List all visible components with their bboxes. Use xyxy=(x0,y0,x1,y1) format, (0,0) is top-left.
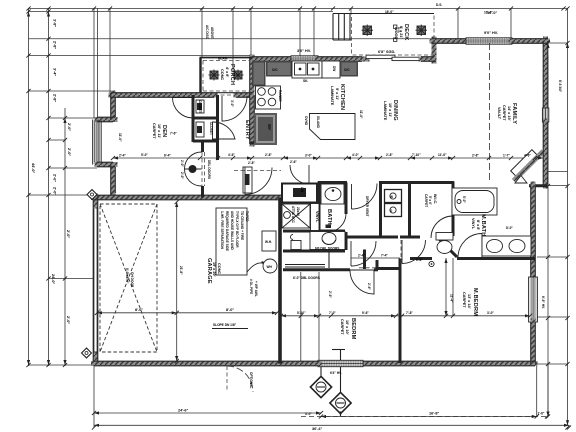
north counter bands xyxy=(266,61,292,77)
family north window xyxy=(466,38,512,44)
family north wall east seg xyxy=(511,39,548,44)
garage X xyxy=(100,204,157,352)
svg-text:ISLAND: ISLAND xyxy=(316,116,320,129)
porch posts xyxy=(209,70,220,81)
south wall east seg xyxy=(363,361,535,366)
svg-text:TO CEILING + FIRE: TO CEILING + FIRE xyxy=(240,211,244,240)
svg-text:2'-8": 2'-8" xyxy=(248,161,255,165)
svg-text:16'-0": 16'-0" xyxy=(385,10,394,14)
gas line to meters xyxy=(340,350,342,417)
bedroom2 door arc xyxy=(350,270,374,294)
closet rods xyxy=(196,100,204,113)
svg-text:2'-8": 2'-8" xyxy=(265,153,272,157)
den bay top xyxy=(97,117,115,122)
svg-text:2'-0": 2'-0" xyxy=(67,123,71,131)
top dim line xyxy=(29,8,569,10)
svg-text:9'-0"x8'-0": 9'-0"x8'-0" xyxy=(125,268,129,284)
garage south wall xyxy=(94,361,284,366)
sliding glass door xyxy=(366,55,421,60)
left margin vertical dim lines xyxy=(28,9,30,367)
svg-text:DBL DOORS: DBL DOORS xyxy=(207,160,211,179)
sink xyxy=(292,61,322,78)
svg-text:TAPED: TAPED xyxy=(245,211,249,222)
bedroom2 closet dbl doors xyxy=(285,264,325,266)
family north wall west seg xyxy=(432,39,467,44)
svg-text:24'-0": 24'-0" xyxy=(51,274,55,285)
right margin vertical dim lines xyxy=(547,55,549,417)
svg-text:21'-8": 21'-8" xyxy=(179,266,183,275)
svg-text:6'-0" DBL DOORS: 6'-0" DBL DOORS xyxy=(293,276,320,280)
svg-text:LIN: LIN xyxy=(300,187,304,193)
svg-text:VAULT: VAULT xyxy=(497,107,501,120)
svg-text:14' x 19': 14' x 19' xyxy=(507,106,511,121)
nook-family jog wall xyxy=(432,39,437,61)
svg-text:2'-6": 2'-6" xyxy=(367,283,371,290)
svg-text:2'-6": 2'-6" xyxy=(53,174,57,182)
svg-text:4'-0": 4'-0" xyxy=(352,153,359,157)
east counter band xyxy=(340,61,358,77)
fireplace diagonal wall xyxy=(529,184,547,187)
svg-text:2'-8": 2'-8" xyxy=(386,153,393,157)
WH circle xyxy=(263,259,277,273)
svg-text:19' x 20': 19' x 20' xyxy=(212,262,216,277)
meter diamond 1 xyxy=(310,376,331,397)
svg-text:13' x 14': 13' x 14' xyxy=(467,294,471,309)
bath toilet xyxy=(310,232,345,250)
svg-text:A/C DISC: A/C DISC xyxy=(205,25,209,40)
den north wall xyxy=(111,93,193,98)
bedroom2 west ext line xyxy=(318,272,320,360)
svg-text:8'-0": 8'-0" xyxy=(506,226,513,230)
fireplace box xyxy=(511,150,539,178)
washer dryer xyxy=(385,190,402,203)
svg-text:7'-8": 7'-8" xyxy=(406,311,413,315)
svg-text:REQUIRED GARAGE SIDE: REQUIRED GARAGE SIDE xyxy=(225,211,229,251)
svg-text:6/0 DBL DOORS: 6/0 DBL DOORS xyxy=(315,247,339,251)
svg-text:AND HOUSE WALLS AND: AND HOUSE WALLS AND xyxy=(230,211,234,251)
interior dim: garage xyxy=(97,312,277,314)
svg-text:1'-7": 1'-7" xyxy=(503,153,510,157)
svg-text:3'-4": 3'-4" xyxy=(53,68,57,76)
kitchen wall end cap xyxy=(250,142,254,145)
kitchen north wall west seg xyxy=(252,57,292,62)
svg-text:16'-8": 16'-8" xyxy=(429,412,440,416)
slope underline xyxy=(212,328,248,330)
mbed east wall lower xyxy=(531,321,536,364)
svg-text:3'0" HV.: 3'0" HV. xyxy=(297,49,311,53)
svg-text:16'-4": 16'-4" xyxy=(484,11,493,15)
attic access box xyxy=(282,204,310,228)
utility walls xyxy=(379,182,382,237)
mbath tub xyxy=(452,188,497,215)
den bay window xyxy=(95,121,101,163)
svg-text:3'-0": 3'-0" xyxy=(487,311,494,315)
svg-text:CONC: CONC xyxy=(220,69,224,80)
bottom dim lines xyxy=(94,412,321,414)
deck outline dashed xyxy=(352,14,435,56)
mbath vanity xyxy=(482,236,531,256)
svg-text:# GL.PIPE: # GL.PIPE xyxy=(249,279,253,294)
svg-text:7'-0": 7'-0" xyxy=(329,311,336,315)
svg-text:8'-6" HV.: 8'-6" HV. xyxy=(541,296,545,309)
svg-text:SLOPE DN 1/8": SLOPE DN 1/8" xyxy=(213,323,237,327)
kitchen window xyxy=(291,56,318,62)
left horizontal dim lines xyxy=(29,11,334,13)
svg-text:DW: DW xyxy=(332,66,336,71)
mbath toilet xyxy=(436,233,453,241)
mbath door arc xyxy=(458,234,482,258)
svg-text:D.S.: D.S. xyxy=(397,27,401,33)
svg-text:CARPET: CARPET xyxy=(340,319,344,335)
den double doors dashed xyxy=(201,152,203,186)
hall coat closet xyxy=(243,167,252,193)
svg-text:SK.: SK. xyxy=(303,79,308,83)
dw box xyxy=(322,61,340,78)
svg-text:2'-0": 2'-0" xyxy=(180,172,184,179)
hose bib den xyxy=(87,190,97,200)
svg-text:3'-0": 3'-0" xyxy=(230,100,234,107)
svg-text:LAMINATE: LAMINATE xyxy=(330,86,334,106)
svg-text:1'-6": 1'-6" xyxy=(538,412,545,416)
svg-text:4' x 8': 4' x 8' xyxy=(225,67,229,77)
svg-text:+ WP AWL: + WP AWL xyxy=(254,281,258,297)
svg-text:CARPET: CARPET xyxy=(424,194,428,207)
svg-text:10' x 10': 10' x 10' xyxy=(345,320,349,335)
bedroom2 south window xyxy=(318,360,363,366)
svg-text:10' x 11': 10' x 11' xyxy=(157,124,161,138)
den bay bottom xyxy=(97,162,115,167)
garage north wall / den south wall xyxy=(94,195,284,200)
island xyxy=(310,114,356,140)
svg-text:9'0" HV.: 9'0" HV. xyxy=(484,31,498,35)
bottom-left extension xyxy=(93,366,95,428)
svg-text:11'-6": 11'-6" xyxy=(359,110,363,119)
wic walls xyxy=(412,181,454,184)
svg-text:6'8" SGD.: 6'8" SGD. xyxy=(378,50,395,54)
svg-text:LAMINATE: LAMINATE xyxy=(383,101,387,121)
svg-text:8'-0": 8'-0" xyxy=(226,308,234,312)
svg-text:TYPE-X GYP BD FLOOR: TYPE-X GYP BD FLOOR xyxy=(235,211,239,248)
svg-text:2'-4": 2'-4" xyxy=(119,153,126,157)
svg-text:2'-6": 2'-6" xyxy=(290,160,297,164)
hall door arc lin xyxy=(308,165,310,184)
svg-text:O/C: O/C xyxy=(272,68,278,72)
svg-text:CONC: CONC xyxy=(217,263,221,274)
svg-text:7'-6": 7'-6" xyxy=(170,132,177,136)
svg-text:3'-0": 3'-0" xyxy=(305,153,312,157)
svg-text:7'-4": 7'-4" xyxy=(381,254,388,258)
svg-text:CLOSET: CLOSET xyxy=(198,100,202,113)
svg-text:6'-8": 6'-8" xyxy=(416,258,423,262)
closet north wall xyxy=(192,93,215,98)
mbath-mbed east window xyxy=(529,277,538,322)
hose bib garage sw xyxy=(82,348,92,358)
svg-text:7'-10": 7'-10" xyxy=(412,153,421,157)
svg-text:W.I.C.: W.I.C. xyxy=(433,194,437,204)
vertical extension lines from top xyxy=(93,9,95,119)
note box xyxy=(216,208,247,275)
svg-text:ATTIC ACC: ATTIC ACC xyxy=(291,206,295,224)
optional door arc xyxy=(227,366,253,392)
hall dashes xyxy=(359,267,400,269)
mbed door arc xyxy=(401,240,403,264)
hall door arc west xyxy=(244,168,246,195)
svg-text:VINYL: VINYL xyxy=(315,211,319,223)
svg-text:11'-0": 11'-0" xyxy=(118,133,122,142)
WH box xyxy=(262,231,276,251)
family east wall lower xyxy=(543,121,548,186)
svg-text:GARAGE: GARAGE xyxy=(206,258,212,284)
svg-text:3'-8": 3'-8" xyxy=(53,19,57,27)
bath side box xyxy=(291,241,301,250)
svg-text:OH DOOR: OH DOOR xyxy=(130,272,134,288)
svg-text:2'-0": 2'-0" xyxy=(66,316,70,324)
svg-text:5'-0": 5'-0" xyxy=(462,196,466,203)
svg-text:36'-4": 36'-4" xyxy=(312,427,323,431)
svg-text:4'-6": 4'-6" xyxy=(228,153,235,157)
corridor dashes xyxy=(234,170,281,172)
deck posts xyxy=(362,25,374,37)
svg-text:WH: WH xyxy=(267,265,273,269)
svg-text:8'-0": 8'-0" xyxy=(135,308,143,312)
entry door header dashed xyxy=(214,94,237,96)
svg-text:6'4" HV.: 6'4" HV. xyxy=(330,371,342,375)
kitchen north wall east seg xyxy=(317,57,367,62)
right horizontal dim stubs xyxy=(548,42,568,44)
svg-text:O/C: O/C xyxy=(344,68,350,72)
closet box walls xyxy=(192,95,195,142)
interior dim: bedrooms xyxy=(281,315,530,317)
svg-text:11'-6": 11'-6" xyxy=(438,153,447,157)
svg-text:2'-6": 2'-6" xyxy=(328,291,332,298)
svg-text:9' x 11': 9' x 11' xyxy=(335,88,339,100)
closet1 door arc xyxy=(173,97,194,99)
garage door dashed box xyxy=(100,204,157,352)
bath vanity xyxy=(321,184,344,204)
bath walls xyxy=(318,182,321,233)
svg-text:BEAM: BEAM xyxy=(218,57,228,61)
svg-text:24'-6": 24'-6" xyxy=(178,409,189,413)
svg-text:2'-8": 2'-8" xyxy=(472,153,479,157)
svg-text:2'-0": 2'-0" xyxy=(53,187,57,195)
bedroom2 north wall xyxy=(283,268,350,271)
entry inner door arc xyxy=(213,122,236,139)
svg-text:ABOVE: ABOVE xyxy=(210,27,214,38)
svg-text:M.BEDRM: M.BEDRM xyxy=(472,288,478,316)
svg-text:2'-4": 2'-4" xyxy=(358,254,365,258)
svg-text:8'-6 3/4": 8'-6 3/4" xyxy=(558,80,562,93)
cooktop xyxy=(256,86,281,109)
svg-text:OVHD: OVHD xyxy=(304,116,308,126)
deck stairs xyxy=(333,13,352,15)
mbath walls xyxy=(457,257,535,260)
vault dashed line xyxy=(489,43,491,181)
fridge dark box xyxy=(254,113,277,145)
svg-text:W: W xyxy=(390,195,393,199)
hall door arc e xyxy=(350,241,352,266)
svg-text:5'-0": 5'-0" xyxy=(141,153,148,157)
porch roof dashes xyxy=(203,60,250,62)
garage east wall xyxy=(278,198,282,364)
svg-text:RANGE: RANGE xyxy=(278,90,282,102)
svg-text:11'-4": 11'-4" xyxy=(450,294,454,303)
svg-text:D.S.: D.S. xyxy=(436,3,442,7)
porch west edge xyxy=(199,58,201,94)
svg-text:2'-0": 2'-0" xyxy=(66,230,70,238)
den west wall upper xyxy=(111,93,116,119)
svg-text:DRYER VENT: DRYER VENT xyxy=(365,196,369,216)
svg-text:CARPET: CARPET xyxy=(152,123,156,139)
west counter hatch xyxy=(252,61,266,86)
den dbl door arcs xyxy=(185,152,202,169)
bath door arc xyxy=(328,214,347,233)
svg-text:CARPET: CARPET xyxy=(462,292,466,308)
den west wall lower xyxy=(111,165,116,196)
LIN closet xyxy=(282,184,317,203)
utility door arc xyxy=(351,184,353,209)
svg-text:W.H.: W.H. xyxy=(265,240,272,244)
svg-text:VINYL: VINYL xyxy=(471,218,475,230)
wic door arc xyxy=(452,215,454,238)
meter diamond 2 xyxy=(330,392,351,413)
svg-text:CLOSET: CLOSET xyxy=(209,122,213,135)
svg-text:3'-0": 3'-0" xyxy=(305,412,312,416)
svg-text:REF: REF xyxy=(267,124,271,130)
kitchen west wall (porch east) xyxy=(250,57,255,144)
svg-text:2'-8": 2'-8" xyxy=(53,41,57,49)
garage west wall xyxy=(93,350,98,361)
north wall east of entry door xyxy=(236,93,252,98)
svg-text:2'-0": 2'-0" xyxy=(180,160,184,167)
svg-text:1-HR. FIRE SEPARATION: 1-HR. FIRE SEPARATION xyxy=(220,211,224,249)
svg-text:9'-6": 9'-6" xyxy=(362,311,369,315)
svg-text:BATH: BATH xyxy=(326,209,332,225)
svg-text:CARPET: CARPET xyxy=(502,105,506,121)
svg-text:BEDRM: BEDRM xyxy=(350,318,356,340)
south wall mid seg xyxy=(283,361,319,366)
svg-text:ENTRY: ENTRY xyxy=(244,120,250,140)
svg-text:44'-0": 44'-0" xyxy=(31,163,35,174)
porch north edge xyxy=(200,57,253,59)
front door arc xyxy=(222,96,247,121)
nook wall east of sgd xyxy=(421,57,434,62)
wic diagonal wall xyxy=(438,238,457,257)
family east wall upper xyxy=(543,39,548,109)
bedroom2 closet east wall xyxy=(328,252,330,268)
svg-text:2'-8": 2'-8" xyxy=(53,94,57,102)
mbath east wall upper xyxy=(531,184,536,278)
svg-text:6'-4": 6'-4" xyxy=(164,153,171,157)
svg-text:5'-10": 5'-10" xyxy=(297,311,306,315)
svg-text:8' x 8': 8' x 8' xyxy=(476,220,480,230)
svg-text:2'-0": 2'-0" xyxy=(67,148,71,156)
svg-text:22x30: 22x30 xyxy=(296,207,300,216)
interior dim: corridor xyxy=(113,157,543,159)
den east wall segs xyxy=(201,141,204,152)
svg-text:10' x 11': 10' x 11' xyxy=(388,103,392,117)
svg-text:OPTIONAL: OPTIONAL xyxy=(249,372,253,389)
svg-text:4'-6": 4'-6" xyxy=(524,153,531,157)
family east window xyxy=(542,108,548,122)
